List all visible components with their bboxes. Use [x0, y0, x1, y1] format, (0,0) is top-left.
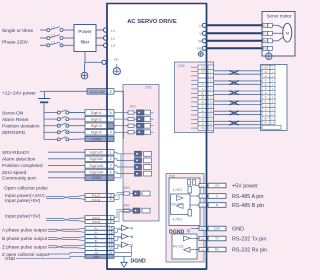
svg-text:6: 6	[110, 111, 112, 115]
svg-text:Input pulse(+5V): Input pulse(+5V)	[5, 198, 41, 204]
svg-text:14: 14	[201, 184, 205, 188]
svg-text:SRV-READY: SRV-READY	[2, 150, 30, 156]
svg-text:Position deviation: Position deviation	[2, 124, 40, 130]
svg-text:CN2: CN2	[177, 64, 184, 68]
svg-text:V-: V-	[202, 122, 205, 126]
svg-text:SigIn3: SigIn3	[91, 123, 102, 128]
svg-text:SigIn1: SigIn1	[91, 110, 102, 115]
svg-text:4: 4	[110, 198, 112, 202]
svg-text:U-: U-	[265, 106, 268, 108]
svg-text:FE: FE	[263, 47, 267, 51]
svg-text:Phase 220V: Phase 220V	[2, 40, 29, 46]
svg-text:Alarm detection: Alarm detection	[2, 157, 36, 163]
svg-text:+5V: +5V	[201, 65, 206, 69]
svg-text:2: 2	[110, 157, 112, 161]
svg-text:U+: U+	[201, 109, 205, 113]
svg-text:Position completed: Position completed	[2, 163, 43, 169]
svg-text:ZEROSPD: ZEROSPD	[2, 130, 26, 136]
svg-text:Community port: Community port	[2, 176, 37, 182]
svg-text:Z phase pulse output: Z phase pulse output	[2, 244, 47, 250]
svg-text:TX: TX	[215, 237, 219, 241]
svg-text:Zero speed: Zero speed	[2, 170, 27, 176]
svg-text:Servo motor: Servo motor	[266, 14, 291, 19]
svg-text:GND: GND	[93, 255, 99, 259]
svg-text:SigOut4: SigOut4	[89, 169, 104, 174]
svg-text:B phase pulse output: B phase pulse output	[2, 236, 48, 242]
svg-text:2KΩ: 2KΩ	[123, 203, 130, 207]
svg-text:Input pulse(+5V): Input pulse(+5V)	[5, 214, 41, 220]
svg-text:B-: B-	[265, 89, 268, 91]
svg-text:Servo-ON: Servo-ON	[2, 110, 24, 116]
svg-text:V-: V-	[265, 114, 267, 116]
svg-text:AC SERVO DRIVE: AC SERVO DRIVE	[127, 19, 177, 25]
svg-text:SigOut3: SigOut3	[89, 163, 103, 168]
svg-text:RX: RX	[215, 248, 219, 252]
svg-text:W-: W-	[265, 123, 268, 125]
svg-text:+12~24V power: +12~24V power	[2, 90, 36, 96]
svg-text:FE: FE	[114, 58, 119, 62]
svg-text:1KΩ: 1KΩ	[129, 104, 136, 108]
svg-text:0V: 0V	[265, 72, 268, 74]
svg-text:FG: FG	[201, 126, 205, 130]
svg-text:Power: Power	[78, 29, 92, 35]
svg-text:+5V power: +5V power	[232, 184, 258, 190]
svg-text:6: 6	[110, 220, 112, 224]
svg-text:11: 11	[201, 248, 204, 252]
svg-text:COM: COM	[92, 175, 101, 180]
svg-text:4.7KΩ: 4.7KΩ	[172, 217, 182, 221]
svg-text:RS-232 Tx pin: RS-232 Tx pin	[232, 237, 266, 243]
svg-text:4.7KΩ: 4.7KΩ	[172, 188, 182, 192]
svg-text:3: 3	[110, 164, 112, 168]
svg-text:2KΩ: 2KΩ	[123, 186, 130, 190]
svg-text:V+: V+	[201, 117, 205, 121]
svg-text:L3: L3	[111, 44, 115, 48]
svg-text:L2: L2	[111, 37, 115, 41]
svg-text:Single or three: Single or three	[2, 28, 34, 34]
svg-text:+5V: +5V	[264, 68, 269, 70]
svg-text:DC12-24V: DC12-24V	[89, 90, 105, 94]
svg-text:SigOut2: SigOut2	[89, 156, 103, 161]
svg-text:FE: FE	[197, 47, 202, 51]
svg-text:DGND: DGND	[131, 259, 147, 265]
svg-text:V: V	[264, 32, 266, 36]
svg-text:U-: U-	[202, 113, 205, 117]
svg-text:+5V: +5V	[214, 184, 219, 188]
svg-text:RS-232: RS-232	[173, 245, 184, 249]
svg-text:COM: COM	[92, 136, 101, 141]
svg-text:A+: A+	[201, 83, 205, 87]
svg-text:0V: 0V	[201, 70, 204, 74]
svg-text:5: 5	[110, 90, 112, 94]
svg-text:RS-232 Rx pin: RS-232 Rx pin	[232, 248, 267, 254]
svg-text:B+: B+	[201, 91, 205, 95]
svg-text:12: 12	[201, 237, 205, 241]
svg-text:RS-485 B pin: RS-485 B pin	[232, 203, 264, 209]
svg-text:W: W	[264, 39, 267, 43]
svg-text:B-: B-	[202, 96, 205, 100]
svg-text:Alarm Reset: Alarm Reset	[2, 117, 29, 123]
svg-text:B: B	[216, 203, 218, 207]
svg-text:Open collector pulse: Open collector pulse	[4, 185, 48, 191]
svg-text:GND: GND	[214, 227, 222, 231]
svg-text:A-: A-	[265, 79, 268, 82]
svg-text:A phase pulse output: A phase pulse output	[2, 227, 47, 233]
svg-text:M: M	[286, 31, 289, 35]
svg-text:SIGN2: SIGN2	[92, 220, 101, 224]
svg-text:SigIn2: SigIn2	[91, 117, 102, 122]
svg-text:GND: GND	[5, 256, 16, 261]
svg-text:A: A	[216, 194, 218, 198]
svg-text:SigIn4: SigIn4	[91, 130, 103, 135]
svg-text:CN1: CN1	[145, 86, 152, 90]
svg-text:Z+: Z+	[201, 100, 205, 104]
svg-text:PULS2: PULS2	[92, 198, 101, 202]
svg-text:Z-: Z-	[202, 104, 205, 108]
svg-text:1: 1	[110, 151, 112, 155]
svg-text:L1: L1	[111, 29, 115, 33]
svg-text:9: 9	[110, 131, 112, 135]
svg-text:A-: A-	[202, 87, 205, 91]
svg-text:13: 13	[201, 227, 205, 231]
svg-text:4: 4	[110, 170, 112, 174]
svg-text:GND: GND	[232, 227, 244, 233]
svg-text:RS-485 A pin: RS-485 A pin	[232, 194, 263, 200]
svg-text:SigOut1: SigOut1	[89, 150, 103, 155]
svg-text:Z-: Z-	[265, 97, 267, 99]
svg-text:7: 7	[110, 117, 112, 121]
svg-text:filter: filter	[80, 40, 89, 46]
svg-text:U: U	[264, 24, 266, 28]
